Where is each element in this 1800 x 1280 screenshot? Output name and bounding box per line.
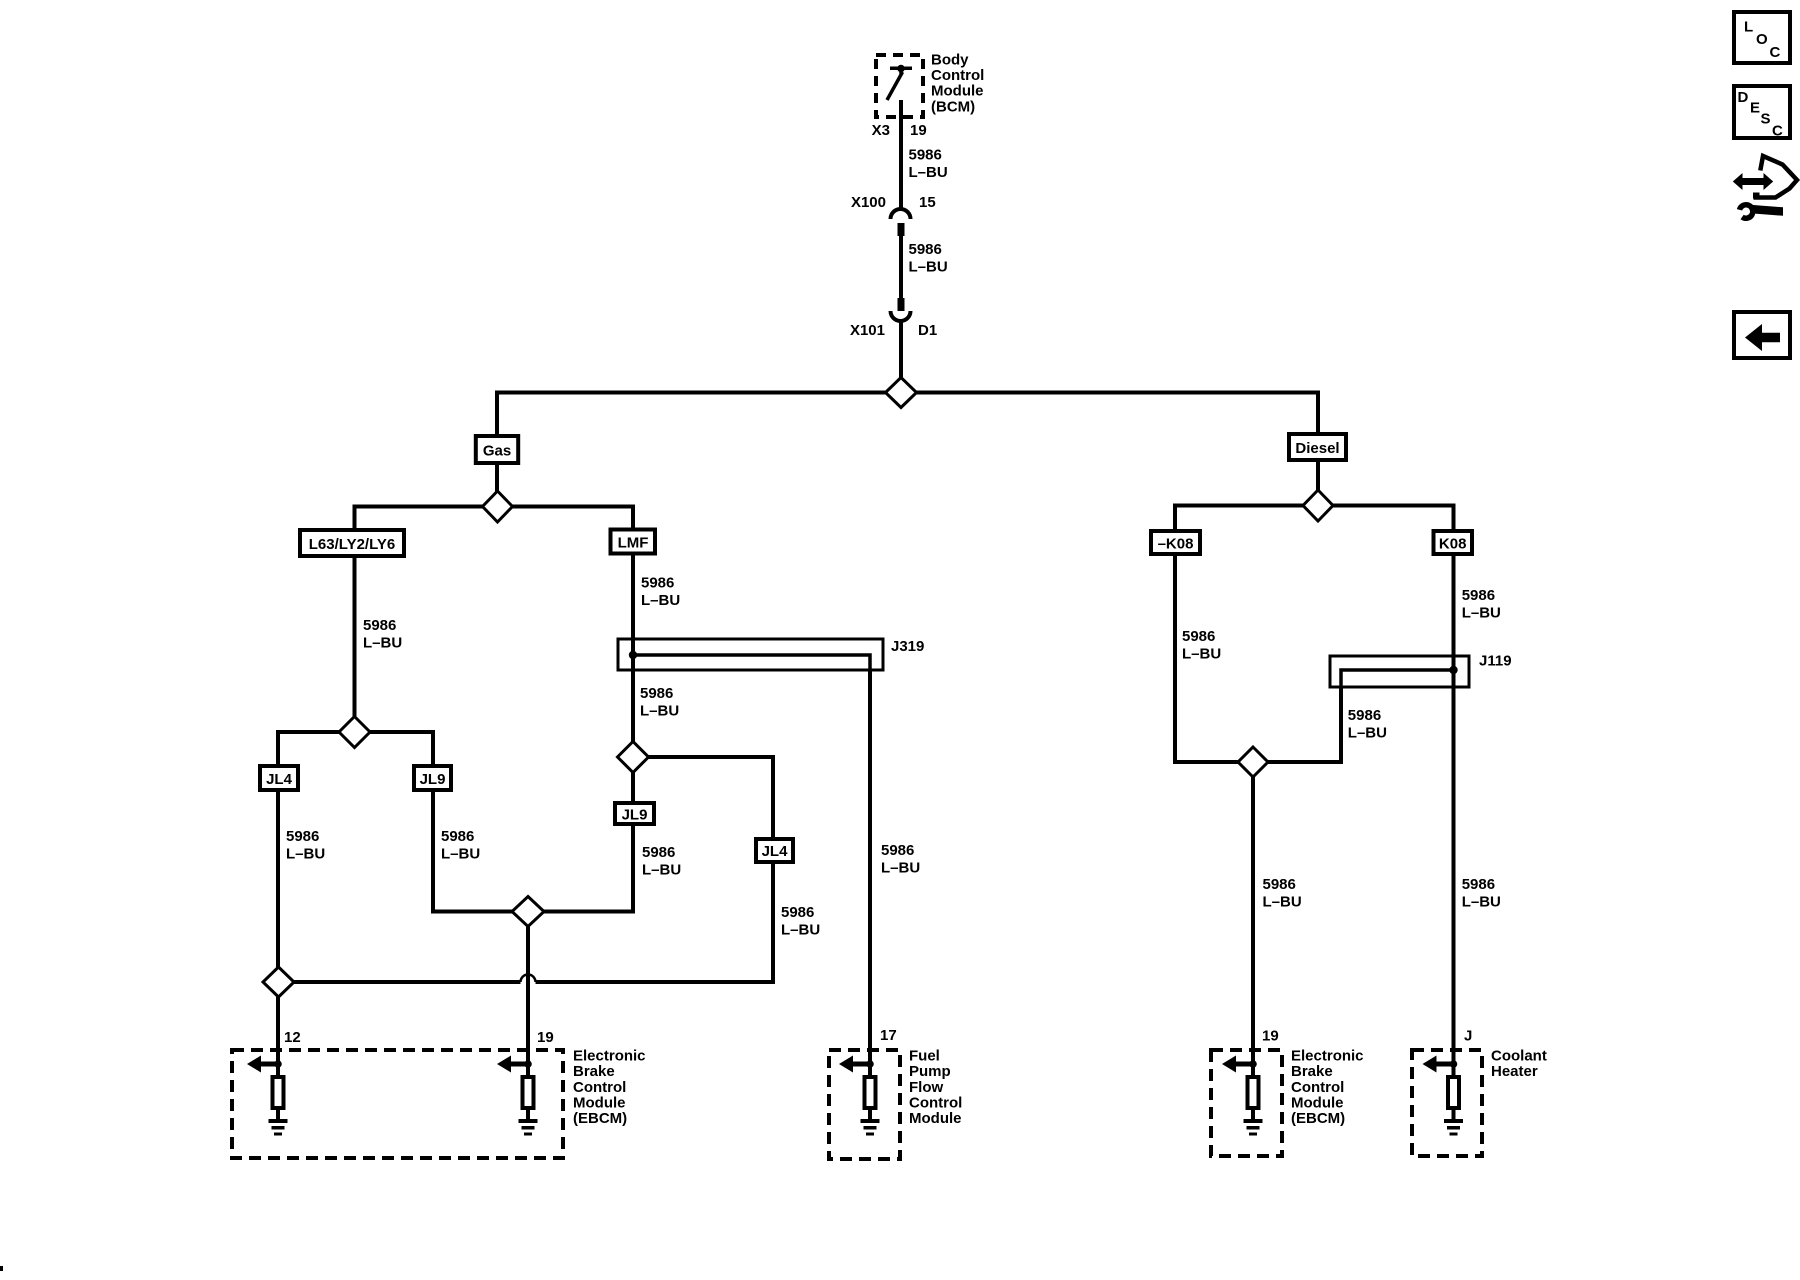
svg-text:JL9: JL9: [622, 806, 648, 823]
module U1 Body Control Module (BCM) dashed box: [876, 55, 923, 117]
svg-text:L–BU: L–BU: [642, 861, 681, 878]
splice diamond (LMF branch): [618, 742, 649, 773]
option box K08: [1434, 531, 1473, 554]
splice diamond (main, below X101): [886, 378, 917, 408]
option box Diesel: [1289, 434, 1346, 460]
svg-text:Electronic: Electronic: [573, 1048, 646, 1065]
svg-text:19: 19: [1262, 1028, 1279, 1045]
connector X101 pin D1 (in-line): [891, 298, 911, 321]
label wire 5986 L-BU (JL9 left): [441, 828, 480, 862]
svg-text:L–BU: L–BU: [641, 592, 680, 609]
svg-text:J: J: [1464, 1028, 1472, 1045]
svg-text:Module: Module: [573, 1094, 626, 1111]
svg-text:5986: 5986: [441, 828, 474, 845]
svg-text:J119: J119: [1479, 653, 1512, 670]
svg-text:K08: K08: [1439, 535, 1467, 552]
svg-text:C: C: [1772, 122, 1783, 139]
label wire 5986 L-BU (-K08 branch): [1182, 628, 1221, 662]
label wire 5986 L-BU (below J319): [640, 685, 679, 719]
wire Diesel box to diesel splice: [1316, 460, 1320, 491]
splice diamond (diesel lower): [1238, 747, 1268, 777]
svg-text:12: 12: [284, 1029, 301, 1046]
harness routing nav icon (double arrow, outline, wrench): [1733, 156, 1797, 218]
svg-text:Pump: Pump: [909, 1063, 951, 1080]
resistor R5 (coolant heater): [1448, 1077, 1459, 1108]
svg-text:L: L: [1744, 18, 1753, 35]
svg-text:Control: Control: [909, 1094, 962, 1111]
svg-text:5986: 5986: [640, 685, 673, 702]
svg-text:5986: 5986: [286, 828, 319, 845]
svg-text:L–BU: L–BU: [781, 921, 820, 938]
svg-text:JL4: JL4: [266, 771, 293, 788]
splice diamond (diesel branch): [1303, 490, 1333, 521]
label Electronic Brake Control Module (EBCM) right: [1291, 1048, 1364, 1128]
option box -K08: [1151, 531, 1200, 554]
svg-text:5986: 5986: [1462, 876, 1495, 893]
svg-text:5986: 5986: [909, 146, 942, 163]
wire splice to JL9 box: [370, 732, 433, 764]
wire X100 to X101: [899, 236, 903, 298]
svg-text:L–BU: L–BU: [1462, 893, 1501, 910]
ground (coolant heater): [1444, 1119, 1463, 1136]
label Coolant Heater: [1491, 1048, 1547, 1081]
wire J119 tap down and left to diesel lower splice: [1268, 687, 1342, 762]
splice diamond (gas branch): [483, 491, 513, 522]
label Fuel Pump Flow Control Module: [909, 1048, 962, 1128]
wire JL4 box down to lower splice: [276, 790, 280, 968]
wire lower run into splice: [294, 980, 521, 984]
option box JL9: [414, 766, 451, 790]
svg-text:Coolant: Coolant: [1491, 1048, 1547, 1065]
ground (EBCM pin 19): [519, 1119, 538, 1136]
wire gas splice left to L63/LY2/LY6: [355, 507, 483, 529]
wire Gas box to gas splice: [495, 465, 499, 492]
splice pack J319: [618, 639, 883, 672]
svg-text:5986: 5986: [781, 904, 814, 921]
svg-text:Diesel: Diesel: [1295, 440, 1339, 457]
DESC button: [1734, 86, 1790, 139]
wire resistor to ground: [868, 1108, 872, 1119]
svg-text:Heater: Heater: [1491, 1063, 1538, 1080]
splice pack J119: [1330, 656, 1469, 689]
option box JL9 (second): [615, 803, 654, 824]
page speck bottom-left: [0, 1266, 3, 1271]
svg-text:Electronic: Electronic: [1291, 1048, 1364, 1065]
label X100 / 15: [851, 194, 936, 211]
ground (right EBCM): [1244, 1119, 1263, 1136]
label wire 5986 L-BU (to right EBCM): [1263, 876, 1302, 910]
svg-text:L–BU: L–BU: [640, 702, 679, 719]
ground (EBCM pin 12): [269, 1119, 288, 1136]
wire resistor to ground: [1452, 1108, 1456, 1119]
wire resistor to ground: [276, 1108, 280, 1119]
label wire 5986 L-BU (LMF below box): [641, 575, 680, 610]
svg-text:–K08: –K08: [1158, 535, 1194, 552]
resistor R1 (EBCM pin 12): [273, 1077, 284, 1108]
svg-text:5986: 5986: [363, 617, 396, 634]
module Fuel Pump Flow Control Module dashed box: [829, 1050, 900, 1159]
svg-text:L–BU: L–BU: [909, 258, 948, 275]
label wire 5986 L-BU (K08 branch): [1462, 587, 1501, 621]
splice diamond (mid, JL9 join): [512, 897, 544, 927]
svg-text:5986: 5986: [641, 575, 674, 592]
wire diesel lower splice down to EBCM pin 19: [1251, 777, 1255, 1075]
wire J319 tap down to fuel pump module: [868, 670, 872, 1075]
svg-text:(EBCM): (EBCM): [573, 1110, 627, 1127]
svg-text:Module: Module: [909, 1110, 962, 1127]
switch S1 inside BCM: [887, 65, 912, 100]
splice diamond (lower left): [263, 967, 294, 997]
label wire 5986 L-BU (J119 tap): [1348, 707, 1387, 741]
option box Gas: [476, 436, 518, 463]
svg-text:5986: 5986: [881, 842, 914, 859]
svg-text:15: 15: [919, 194, 936, 211]
svg-text:Body: Body: [931, 51, 969, 68]
svg-text:Control: Control: [1291, 1079, 1344, 1096]
ground (fuel pump): [861, 1119, 880, 1136]
resistor R4 (right EBCM): [1248, 1077, 1259, 1108]
wire -K08 down and right to diesel lower splice: [1175, 554, 1239, 762]
svg-text:D1: D1: [918, 322, 937, 339]
wire resistor to ground: [1251, 1108, 1255, 1119]
svg-text:Control: Control: [931, 67, 984, 84]
svg-text:Fuel: Fuel: [909, 1048, 940, 1065]
svg-text:J319: J319: [891, 638, 924, 655]
wire diesel splice right to K08: [1333, 506, 1454, 530]
svg-text:19: 19: [910, 122, 927, 139]
svg-text:19: 19: [537, 1029, 554, 1046]
back button: [1734, 312, 1790, 358]
svg-text:L–BU: L–BU: [1462, 604, 1501, 621]
wire hop (no connection) over pin-19 wire: [521, 975, 536, 983]
svg-text:Brake: Brake: [573, 1063, 615, 1080]
signal arrow at pin 19 (right EBCM): [1222, 1056, 1257, 1073]
label wire 5986 L-BU (BCM to X100): [909, 146, 948, 180]
wire diesel splice left to -K08: [1175, 506, 1303, 530]
svg-text:Module: Module: [1291, 1094, 1344, 1111]
svg-text:L–BU: L–BU: [1182, 645, 1221, 662]
wire LMF down through J319 to splice: [631, 553, 635, 742]
wire JL9 second down to mid splice: [544, 824, 633, 912]
svg-text:L–BU: L–BU: [363, 635, 402, 652]
svg-text:L63/LY2/LY6: L63/LY2/LY6: [309, 536, 395, 553]
signal arrow at pin 12: [247, 1056, 282, 1073]
label Electronic Brake Control Module (EBCM): [573, 1048, 646, 1128]
svg-text:Brake: Brake: [1291, 1063, 1333, 1080]
svg-text:17: 17: [880, 1027, 897, 1044]
label Body Control Module (BCM): [931, 51, 984, 115]
wire JL9 box down and right to mid splice: [433, 790, 512, 912]
svg-text:X3: X3: [872, 122, 890, 139]
svg-text:Control: Control: [573, 1079, 626, 1096]
label X101 / D1: [850, 322, 937, 339]
svg-text:Flow: Flow: [909, 1079, 943, 1096]
svg-text:L–BU: L–BU: [881, 859, 920, 876]
label wire 5986 L-BU (to coolant heater): [1462, 876, 1501, 910]
option box L63/LY2/LY6: [300, 530, 404, 556]
module Coolant Heater dashed box: [1412, 1050, 1482, 1156]
label wire 5986 L-BU (JL4 second): [781, 904, 820, 938]
signal arrow at pin 17: [839, 1056, 874, 1073]
svg-text:O: O: [1756, 31, 1768, 48]
label wire 5986 L-BU (JL4 left): [286, 828, 325, 862]
wire K08 down through J119 to coolant heater: [1452, 554, 1456, 1075]
signal arrow at pin J: [1423, 1056, 1458, 1073]
label wire 5986 L-BU (JL9 second): [642, 844, 681, 878]
wire splice down to EBCM pin 12: [276, 997, 280, 1075]
wire gas splice right to LMF: [513, 507, 634, 528]
svg-text:C: C: [1770, 44, 1781, 61]
svg-text:LMF: LMF: [618, 534, 649, 551]
svg-text:D: D: [1738, 89, 1749, 106]
wire splice to JL4 box: [278, 732, 339, 764]
svg-text:X101: X101: [850, 322, 885, 339]
wire L63 box down to splice: [353, 558, 357, 717]
label wire 5986 L-BU (X100 to X101): [909, 241, 948, 275]
svg-text:Gas: Gas: [483, 442, 511, 459]
wire JL4 second down to lower run: [536, 862, 774, 982]
wire X101 to main splice: [899, 320, 903, 378]
svg-text:Module: Module: [931, 83, 984, 100]
LOC button: [1734, 12, 1790, 63]
svg-text:L–BU: L–BU: [1348, 724, 1387, 741]
svg-text:5986: 5986: [1263, 876, 1296, 893]
svg-text:X100: X100: [851, 194, 886, 211]
label wire 5986 L-BU (L63 branch): [363, 617, 402, 652]
wire BCM pin to X100: [899, 100, 903, 209]
svg-text:S: S: [1761, 110, 1771, 127]
wire resistor to ground: [526, 1108, 530, 1119]
svg-text:L–BU: L–BU: [1263, 893, 1302, 910]
resistor R3 (fuel pump): [865, 1077, 876, 1108]
option box JL4: [260, 766, 298, 790]
svg-text:(BCM): (BCM): [931, 98, 975, 115]
label wire 5986 L-BU (J319 tap to fuel pump): [881, 842, 920, 876]
wire main bus left to Gas branch: [497, 393, 886, 435]
svg-text:5986: 5986: [1462, 587, 1495, 604]
svg-text:L–BU: L–BU: [909, 164, 948, 181]
svg-text:JL9: JL9: [420, 771, 446, 788]
splice diamond (L63 branch): [339, 717, 370, 748]
svg-text:5986: 5986: [642, 844, 675, 861]
wire splice down to JL9 (second): [631, 773, 635, 804]
svg-text:L–BU: L–BU: [441, 846, 480, 863]
resistor R2 (EBCM pin 19): [523, 1077, 534, 1108]
svg-text:E: E: [1750, 99, 1760, 116]
wire splice right to JL4 (second): [649, 757, 774, 837]
wire mid splice down to EBCM pin 19 (crosses lower run): [526, 927, 530, 1076]
svg-text:JL4: JL4: [762, 843, 789, 860]
label connector X3 pin 19: [872, 122, 927, 139]
signal arrow at pin 19: [497, 1056, 532, 1073]
wire main bus right to Diesel branch: [917, 393, 1319, 433]
module EBCM (right) dashed box: [1211, 1050, 1282, 1156]
svg-text:5986: 5986: [909, 241, 942, 258]
svg-text:5986: 5986: [1182, 628, 1215, 645]
svg-text:L–BU: L–BU: [286, 846, 325, 863]
svg-text:(EBCM): (EBCM): [1291, 1110, 1345, 1127]
svg-text:5986: 5986: [1348, 707, 1381, 724]
module EBCM (left) dashed box: [232, 1050, 563, 1158]
option box JL4 (second): [756, 839, 793, 862]
connector X100 pin 15 (in-line): [891, 209, 911, 236]
option box LMF: [611, 530, 656, 554]
